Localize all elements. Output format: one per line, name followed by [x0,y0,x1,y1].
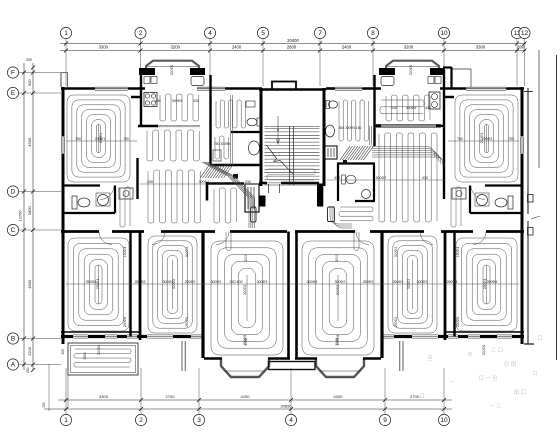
svg-text:250Φ6: 250Φ6 [456,317,460,327]
svg-text:4200: 4200 [241,394,251,399]
stove right [429,92,440,109]
coil bedroom1 right [456,238,517,331]
outer wall right [521,87,524,344]
bay window bottom-right [316,359,364,377]
svg-text:7: 7 [318,30,322,37]
svg-text:750: 750 [457,137,463,141]
wall stub below bath left [207,182,244,185]
mid dimension row [66,283,519,285]
svg-text:430: 430 [155,99,161,103]
right unit bath walls [337,162,375,164]
svg-text:150: 150 [61,349,65,355]
svg-text:8: 8 [371,30,375,37]
svg-text:20400: 20400 [287,38,299,43]
bay window top-left [146,61,199,75]
coil bath left [215,136,229,159]
svg-text:3000: 3000 [83,352,87,359]
bottom wall right unit [394,335,412,338]
coil entry left [216,100,245,128]
svg-text:口: 口 [537,335,543,342]
svg-text:2400: 2400 [232,45,242,50]
coil tall room left [67,95,130,182]
coil kitchen right [380,100,424,114]
svg-text:430: 430 [193,99,199,103]
coil entry hairpin bed3 right [354,232,359,251]
svg-text:4800: 4800 [27,279,32,289]
svg-text:250Φ2: 250Φ2 [185,317,189,327]
svg-text:300Φ4: 300Φ4 [307,280,318,284]
coil living right [379,133,437,222]
door arcs [100,186,114,200]
svg-text:430: 430 [147,180,153,184]
washing machine left [119,188,133,199]
svg-text:3048: 3048 [244,338,248,346]
svg-text:C: C [11,227,16,234]
svg-text:4: 4 [208,30,212,37]
svg-text:口 一 旦: 口 一 旦 [478,375,498,382]
stairwell walls [260,88,263,186]
right unit bath fixtures [342,175,346,184]
svg-text:旦: 旦 [427,355,433,362]
porch lines left [181,341,183,371]
coil top room right [386,95,430,121]
pier stub left [131,96,141,99]
svg-text:300Φ7: 300Φ7 [376,176,387,180]
svg-text:750: 750 [508,137,514,141]
svg-text:300Φ6: 300Φ6 [170,65,174,75]
svg-text:B: B [11,336,15,343]
svg-text:20850: 20850 [280,404,292,409]
svg-text:D: D [11,189,16,196]
svg-text:3000: 3000 [335,254,339,262]
svg-text:250Φ2: 250Φ2 [363,280,374,284]
svg-text:300Φ3: 300Φ3 [257,280,268,284]
left entry fixtures [247,118,257,126]
svg-text:250 400: 250 400 [230,280,243,284]
svg-text:1: 1 [64,417,68,424]
top dimension lines [60,43,526,45]
svg-text:200Φ3: 200Φ3 [480,133,484,143]
svg-text:300 300Φ5 150: 300 300Φ5 150 [339,126,362,130]
stair treads [265,128,320,130]
manifold right [340,146,350,160]
manifold left [200,164,210,178]
bottom dimension lines [58,399,452,401]
bathroom fixtures left [72,196,77,209]
coil tall room right [455,95,518,182]
pier stub right [444,96,454,99]
svg-text:250Φ4: 250Φ4 [487,280,498,284]
bay window top-right [386,61,439,75]
svg-text:口: 口 [532,371,537,377]
svg-text:250Φ4: 250Φ4 [96,279,100,289]
svg-text:2: 2 [139,417,143,424]
svg-text:250Φ3: 250Φ3 [135,280,146,284]
corridor pipes below stairs [267,169,315,180]
svg-text:A: A [11,362,16,369]
svg-text:4200: 4200 [334,394,344,399]
svg-text:300Φ6: 300Φ6 [409,65,413,75]
svg-text:300Φ7: 300Φ7 [199,180,210,184]
svg-text:E: E [11,90,16,97]
svg-text:250Φ2: 250Φ2 [185,280,196,284]
svg-text:300Φ2: 300Φ2 [407,279,411,289]
top axis circles [60,27,71,38]
svg-text:12: 12 [521,30,529,37]
svg-text:300Φ3: 300Φ3 [243,285,247,295]
bay window bottom-left [221,359,269,377]
svg-text:300Φ2: 300Φ2 [185,247,189,257]
coil entry right [339,100,368,141]
svg-text:250Φ6: 250Φ6 [123,317,127,327]
svg-text:10: 10 [440,417,448,424]
coil living left east [214,188,236,223]
svg-text:150Φ4: 150Φ4 [123,247,127,257]
coil bedroom2 left [148,236,197,333]
coil bedroom3 left [211,241,283,355]
svg-text:1800: 1800 [27,206,32,216]
balcony bottom-left [68,343,138,375]
svg-text:三 口: 三 口 [491,347,504,354]
window left wall [60,137,66,154]
svg-text:田: 田 [467,352,472,358]
svg-text:250Φ4: 250Φ4 [86,280,97,284]
coil bedroom2 right [388,236,437,333]
svg-text:5: 5 [261,30,265,37]
coil living left [148,170,200,223]
coil bedroom1 left [68,238,129,331]
svg-text:3300: 3300 [476,45,486,50]
stove left [144,93,157,107]
svg-text:2400: 2400 [342,45,352,50]
svg-text:300Φ2: 300Φ2 [335,280,346,284]
left axis circles [7,67,18,78]
bottom wall left unit [61,335,73,338]
svg-text:一 三: 一 三 [489,403,502,410]
svg-text:900: 900 [27,79,32,86]
manifold cabinet left [245,184,259,212]
coil below right bath [339,207,373,221]
svg-text:10: 10 [440,30,448,37]
svg-text:300Φ2: 300Φ2 [417,280,428,284]
svg-text:250Φ3: 250Φ3 [393,280,404,284]
svg-text:2700: 2700 [166,394,176,399]
entry-bath walls left [231,131,261,133]
svg-text:750 300Φ5: 750 300Φ5 [214,142,231,146]
svg-text:F: F [11,70,15,77]
svg-text:4: 4 [289,417,293,424]
living room dim rows [140,183,258,185]
porch lines right [399,341,401,371]
svg-text:430: 430 [425,106,431,110]
interior walls left unit [140,70,142,127]
svg-text:4500: 4500 [27,137,32,147]
svg-text:300Φ2: 300Φ2 [394,247,398,257]
svg-text:3300: 3300 [99,45,109,50]
svg-text:9: 9 [383,417,387,424]
svg-text:300Φ2: 300Φ2 [211,280,222,284]
svg-text:2600: 2600 [287,45,297,50]
svg-text:250: 250 [26,367,30,373]
pipe bundle right [369,126,371,145]
svg-text:1: 1 [64,30,68,37]
coil hallway right [451,187,461,227]
svg-text:150: 150 [42,402,46,408]
svg-text:12700: 12700 [18,210,23,222]
svg-text:300Φ5: 300Φ5 [172,99,182,103]
svg-text:300Φ6: 300Φ6 [97,345,101,355]
bottom walls center rooms [204,357,222,359]
svg-text:3048: 3048 [335,338,339,346]
bathroom fixtures right [508,196,513,209]
svg-text:250Φ2: 250Φ2 [394,317,398,327]
svg-text:一: 一 [449,380,455,386]
svg-text:口: 口 [419,393,425,400]
svg-text:750: 750 [123,137,129,141]
svg-text:300Φ3: 300Φ3 [336,285,340,295]
svg-text:3300: 3300 [99,394,109,399]
interior walls right unit [443,70,445,199]
svg-text:3200: 3200 [404,45,414,50]
svg-text:750: 750 [75,137,81,141]
svg-text:430: 430 [245,180,251,184]
left dimension lines [23,63,25,370]
svg-text:2: 2 [139,30,143,37]
svg-text:300: 300 [517,45,525,50]
svg-text:430: 430 [391,106,397,110]
svg-text:300Φ2: 300Φ2 [172,279,176,289]
svg-text:3: 3 [197,417,201,424]
coil living upper left [147,130,199,161]
svg-text:1200: 1200 [27,346,32,356]
svg-text:300Φ5: 300Φ5 [406,106,416,110]
svg-text:200Φ1: 200Φ1 [99,133,103,143]
upper dimension rows [66,140,137,142]
svg-text:250Φ4: 250Φ4 [483,279,487,289]
outer wall left [62,87,65,344]
svg-text:3200: 3200 [171,45,181,50]
svg-text:日 田: 日 田 [504,361,517,368]
svg-text:3000: 3000 [244,254,248,262]
washing machine right [452,188,466,199]
svg-text:300Φ6: 300Φ6 [482,345,486,355]
coil entry hairpin bed3 left [226,232,231,251]
svg-text:250Φ4: 250Φ4 [447,280,458,284]
coil hallway left [120,187,130,227]
adjacent section strip [527,88,529,214]
pipe bundle left [230,95,232,165]
svg-text:430: 430 [422,176,428,180]
svg-text:150Φ4: 150Φ4 [456,247,460,257]
outer wall top-right [506,87,524,90]
window right wall [519,137,525,154]
right entry fixtures [329,101,338,108]
coil top room left [160,94,199,121]
C-axis wall [61,230,99,233]
coil bedroom3 right [302,241,374,355]
entrance canopy [269,362,316,370]
svg-text:250: 250 [26,58,32,62]
svg-text:430: 430 [334,176,340,180]
svg-text:田 口: 田 口 [514,389,527,396]
bottom axis circles [60,414,71,425]
outer wall top-left [61,87,95,90]
